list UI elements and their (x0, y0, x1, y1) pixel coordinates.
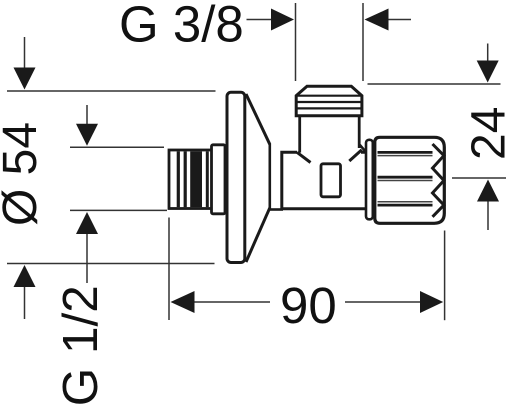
dimension 90 right extension line (444, 231, 446, 321)
wall flange (227, 92, 245, 262)
cap thread line 1 (297, 95, 362, 97)
svg-text:Ø 54: Ø 54 (0, 122, 47, 226)
handle collar ring (366, 140, 373, 220)
pipe G 1/2 outline (169, 150, 212, 209)
port G 3/8 threaded cap (296, 86, 362, 116)
dimension 90 right arrow (345, 291, 443, 313)
cap thread line 2 (298, 101, 361, 103)
cap thread line 3 (298, 107, 361, 109)
flange cone top slant (246, 94, 270, 144)
dimension line G 3/8 right (363, 3, 411, 81)
knob knurl zigzag (433, 144, 444, 217)
dimension 90 left extension line (168, 218, 170, 321)
svg-text:G 3/8: G 3/8 (119, 0, 244, 52)
flange cone bottom slant (246, 208, 270, 262)
knob ridge 1 thin (378, 155, 433, 157)
dimension G 1/2 top extension line (70, 105, 164, 147)
dimension line G 3/8 left (247, 3, 296, 81)
pipe thread line 1 (177, 152, 180, 208)
pipe thread line 2 (184, 152, 187, 208)
knob ridge 3 thin (378, 201, 433, 203)
knob ridge 1 thick (378, 151, 433, 154)
knob ridge 2 thin (378, 180, 433, 182)
dimension D54 bottom extension line (7, 264, 215, 320)
dimension 24 top extension line (368, 44, 501, 85)
knob ridge 2 thick (378, 176, 433, 179)
handle knob (375, 137, 445, 223)
cone neck bottom edge (270, 208, 283, 211)
body right chamfer line (349, 150, 362, 161)
pipe collar (212, 145, 226, 214)
dimension 90 left arrow (171, 291, 271, 313)
svg-text:G 1/2: G 1/2 (53, 285, 108, 406)
dimension D54 top extension line (7, 37, 216, 91)
body label plate (321, 164, 341, 197)
dimension 24 bottom extension line (452, 178, 506, 230)
cone neck left edge (268, 144, 271, 210)
valve body (282, 152, 367, 209)
svg-text:24: 24 (463, 107, 508, 160)
pipe thread line 3 (206, 152, 209, 208)
svg-text:90: 90 (280, 277, 337, 334)
body right shoulder line (360, 145, 366, 152)
body left chamfer line (297, 152, 311, 162)
port G 3/8 neck (297, 114, 361, 154)
knob ridge 3 thick (378, 204, 433, 207)
dimension G 1/2 bottom extension line (70, 210, 167, 283)
pipe thread dark band (190, 152, 202, 208)
